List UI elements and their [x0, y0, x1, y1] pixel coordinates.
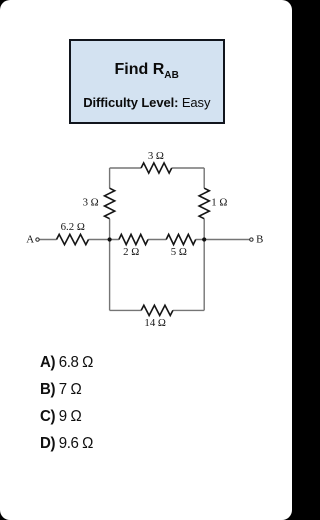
svg-text:A: A	[26, 234, 34, 246]
resistor 1ohm right vertical	[199, 188, 227, 219]
wire right vertical	[203, 168, 205, 310]
wire bottom rail	[110, 309, 205, 311]
title box	[69, 39, 225, 124]
wire left vertical	[109, 168, 111, 310]
resistor 2ohm	[119, 234, 148, 258]
svg-text:3 Ω: 3 Ω	[83, 197, 99, 209]
wire top rail	[110, 167, 205, 169]
svg-text:5 Ω: 5 Ω	[171, 246, 187, 258]
svg-text:1 Ω: 1 Ω	[211, 196, 227, 208]
svg-text:3 Ω: 3 Ω	[148, 150, 164, 162]
resistor 6.2ohm	[57, 221, 89, 245]
resistor 3ohm left vertical	[83, 188, 115, 219]
resistor 5ohm	[166, 234, 196, 258]
svg-text:14 Ω: 14 Ω	[144, 317, 166, 329]
svg-text:B: B	[256, 234, 263, 246]
node junction right	[202, 237, 206, 241]
terminal B	[250, 234, 264, 246]
answer options	[40, 353, 96, 461]
node junction left	[108, 237, 112, 241]
terminal A	[26, 234, 39, 246]
resistor 14ohm bottom	[141, 305, 173, 329]
resistor 3ohm top	[141, 150, 172, 173]
wire middle rail	[39, 239, 249, 241]
svg-text:2 Ω: 2 Ω	[123, 246, 139, 258]
svg-text:6.2 Ω: 6.2 Ω	[61, 221, 85, 233]
